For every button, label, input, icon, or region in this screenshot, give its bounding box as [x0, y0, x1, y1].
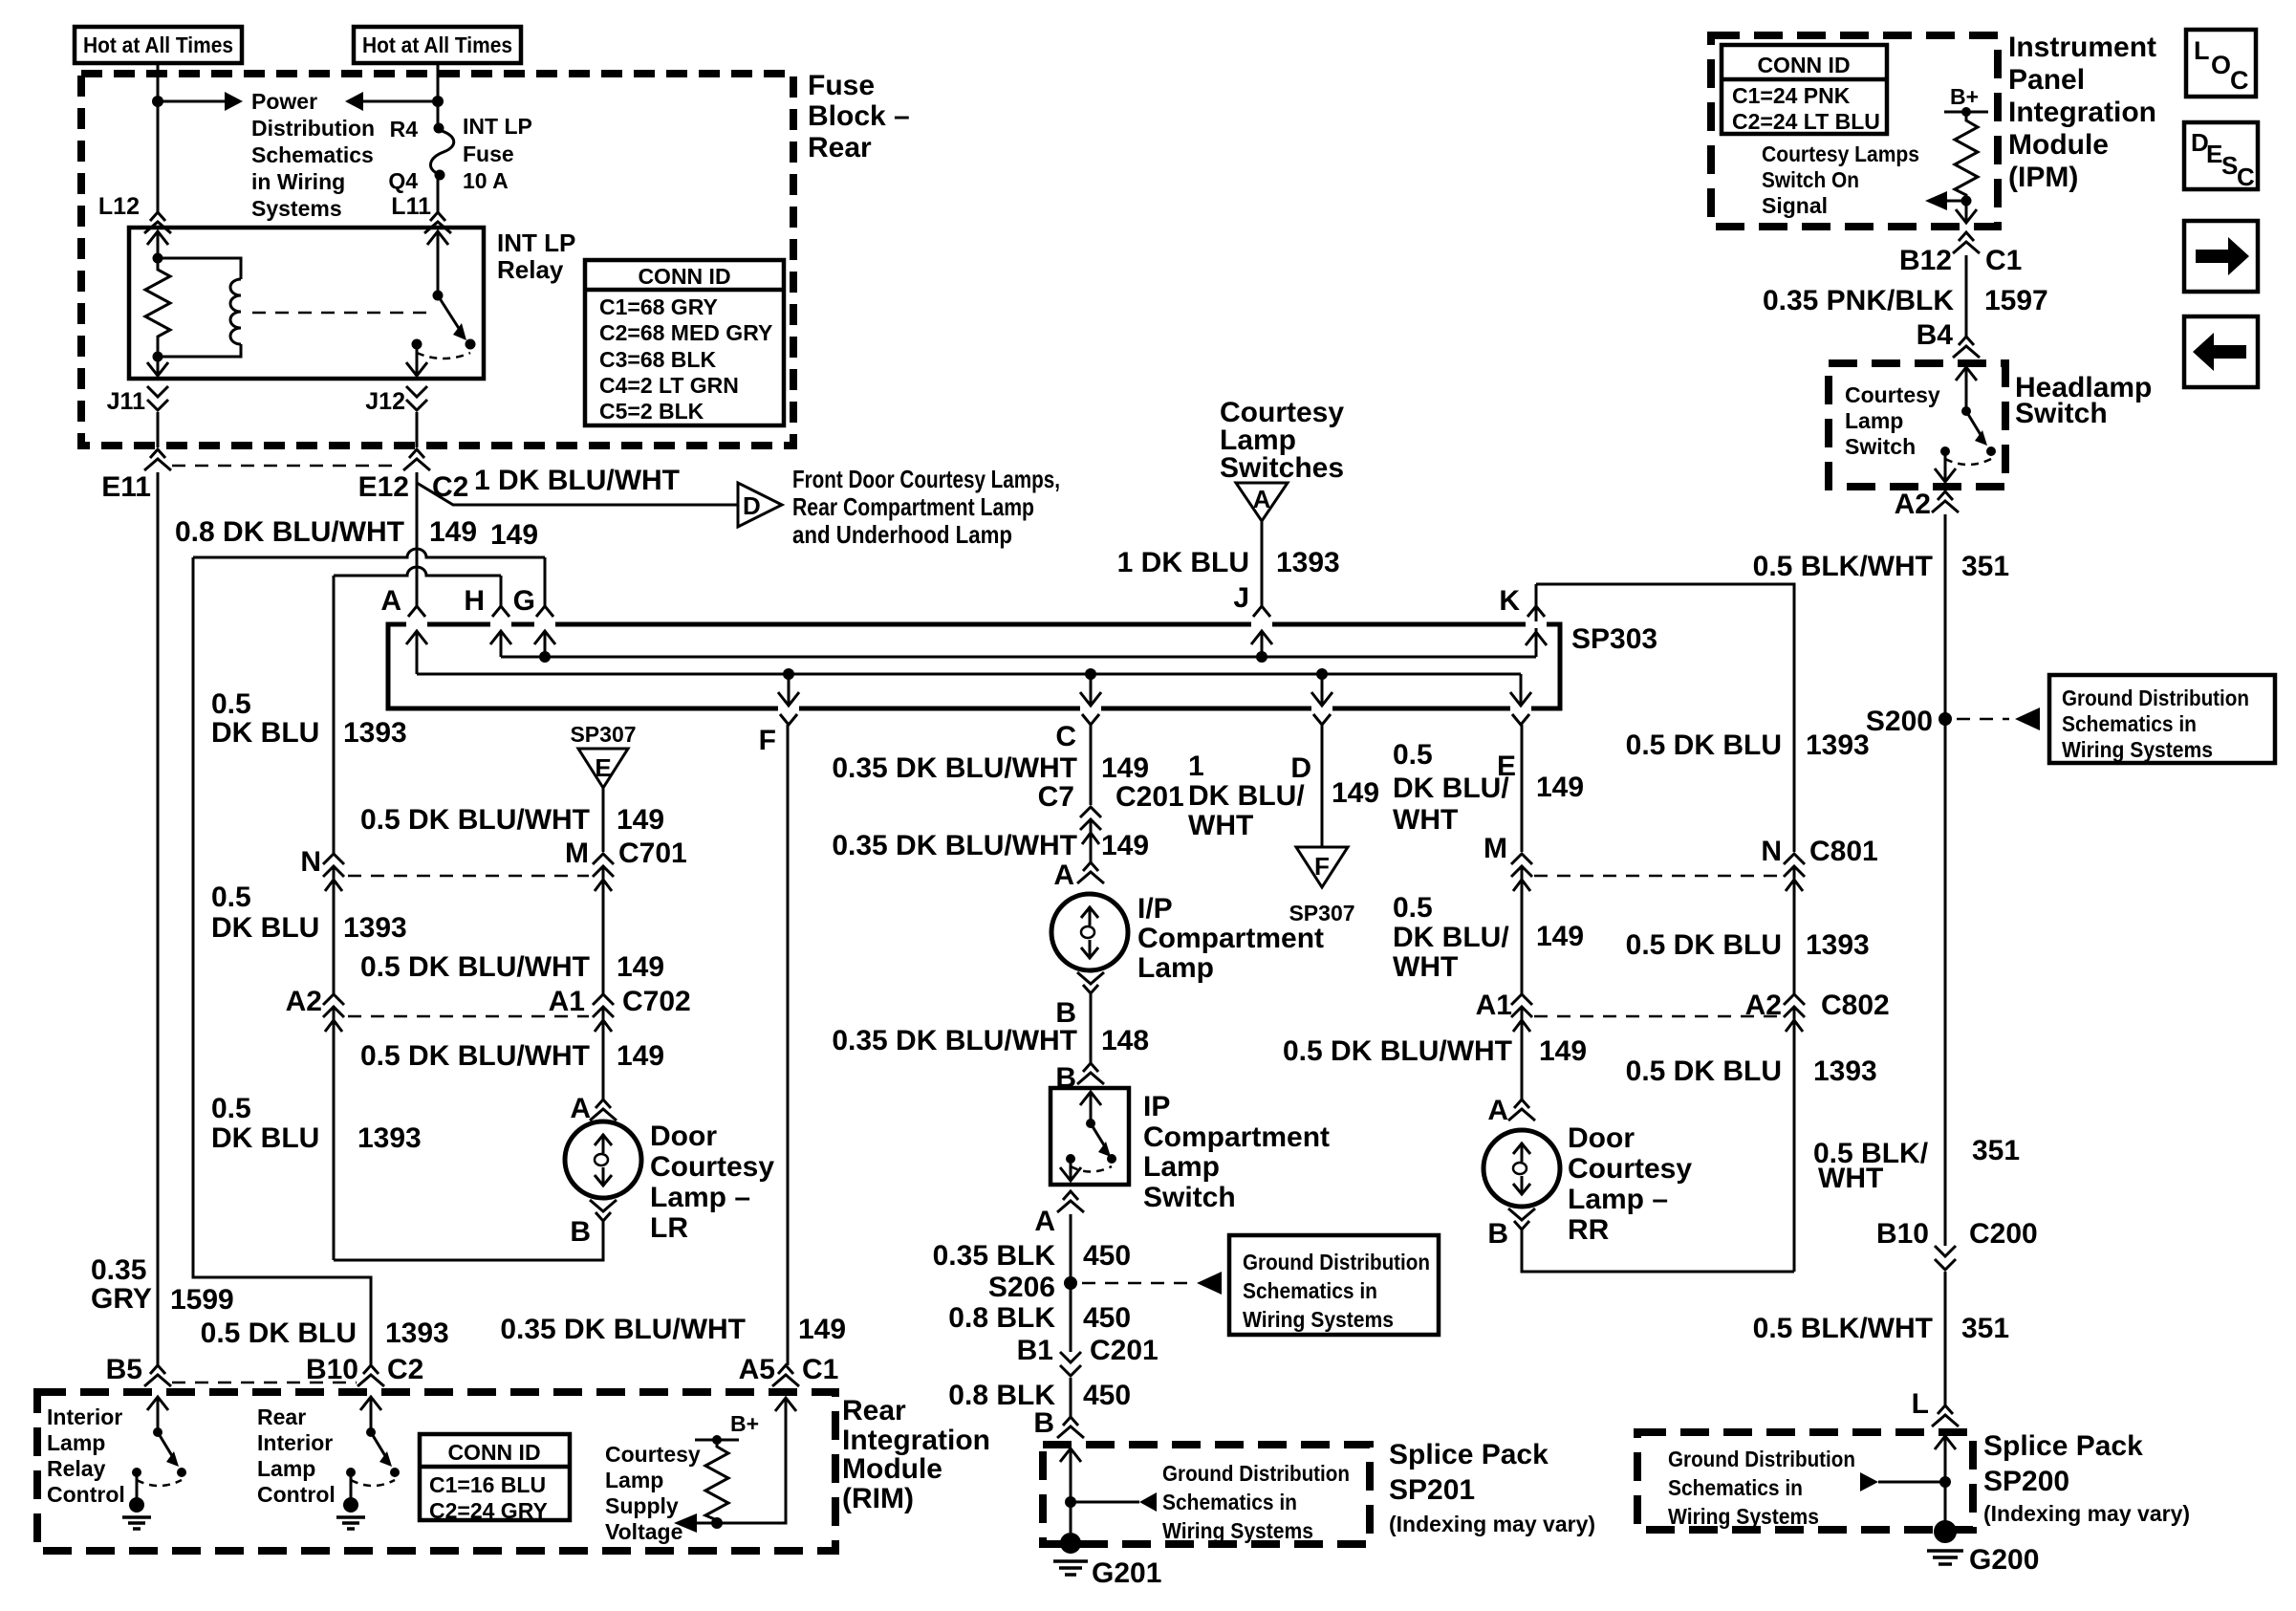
svg-text:B10: B10	[1876, 1218, 1929, 1250]
svg-text:Compartment: Compartment	[1137, 923, 1324, 954]
svg-text:Instrument: Instrument	[2008, 32, 2156, 63]
svg-text:Wiring Systems: Wiring Systems	[1162, 1518, 1313, 1543]
svg-text:D: D	[743, 491, 761, 520]
svg-text:149: 149	[1536, 772, 1584, 803]
svg-text:Front Door Courtesy Lamps,: Front Door Courtesy Lamps,	[792, 465, 1060, 493]
svg-text:M: M	[1484, 833, 1507, 864]
svg-text:0.5 DK BLU: 0.5 DK BLU	[201, 1317, 357, 1349]
svg-text:Courtesy: Courtesy	[605, 1442, 701, 1467]
svg-text:SP307: SP307	[1289, 901, 1354, 925]
svg-text:and Underhood Lamp: and Underhood Lamp	[792, 520, 1012, 549]
svg-text:Integration: Integration	[2008, 97, 2156, 128]
DESC box	[2184, 122, 2258, 189]
horizontal wire to G with hop	[193, 549, 545, 557]
svg-text:Door: Door	[1568, 1122, 1635, 1154]
svg-text:1393: 1393	[343, 717, 407, 749]
svg-text:0.5 DK BLU/WHT: 0.5 DK BLU/WHT	[1283, 1035, 1512, 1067]
svg-text:Relay: Relay	[47, 1456, 106, 1481]
Ground Distribution reference box (S206)	[1229, 1235, 1439, 1335]
Splice Pack SP201 dashed box	[1043, 1445, 1370, 1544]
svg-text:A1: A1	[1476, 990, 1512, 1021]
svg-text:C201: C201	[1090, 1335, 1159, 1366]
svg-text:J: J	[1233, 582, 1249, 614]
svg-text:C: C	[2230, 66, 2249, 95]
lamp LR circle	[565, 1121, 641, 1198]
dashed connector line C801	[1534, 875, 1778, 878]
svg-text:B+: B+	[1950, 84, 1979, 109]
svg-text:L: L	[1912, 1388, 1929, 1420]
svg-text:Ground Distribution: Ground Distribution	[1162, 1461, 1350, 1486]
arrow to Power Distribution text	[158, 100, 225, 103]
svg-text:WHT: WHT	[1393, 951, 1458, 983]
svg-text:G200: G200	[1969, 1544, 2039, 1576]
svg-text:Schematics in: Schematics in	[2062, 711, 2197, 736]
svg-text:Compartment: Compartment	[1143, 1121, 1330, 1153]
connector B12 / C1	[1953, 232, 1980, 253]
svg-text:Module: Module	[842, 1453, 942, 1485]
Hot at All Times box 2	[354, 27, 521, 63]
svg-text:C2=68 MED GRY: C2=68 MED GRY	[599, 320, 772, 345]
svg-text:450: 450	[1083, 1240, 1131, 1272]
white notches at bus edge terminal crossings	[406, 625, 1547, 708]
svg-text:149: 149	[490, 519, 538, 551]
left arrow (courtesy lamps switch on signal)	[1947, 200, 1966, 203]
svg-text:149: 149	[1101, 752, 1149, 784]
svg-text:Courtesy: Courtesy	[1568, 1153, 1692, 1185]
svg-text:0.5 DK BLU/WHT: 0.5 DK BLU/WHT	[360, 1040, 590, 1072]
svg-text:C2: C2	[387, 1354, 423, 1385]
svg-text:C3=68 BLK: C3=68 BLK	[599, 347, 716, 372]
terminal D leaving bus	[1316, 668, 1328, 680]
svg-text:L12: L12	[98, 193, 140, 220]
headlamp switch internals	[1956, 367, 1977, 381]
ground G200	[1934, 1520, 1957, 1543]
svg-text:SP200: SP200	[1983, 1466, 2069, 1497]
dashed connector line E11-E12	[172, 465, 401, 468]
svg-text:Switch: Switch	[1143, 1182, 1236, 1213]
svg-text:Distribution: Distribution	[251, 116, 375, 141]
svg-text:C201: C201	[1116, 781, 1184, 813]
svg-text:SP201: SP201	[1389, 1474, 1475, 1506]
svg-text:1393: 1393	[1813, 1056, 1877, 1087]
svg-text:0.35 DK BLU/WHT: 0.35 DK BLU/WHT	[832, 1025, 1077, 1056]
svg-text:C1: C1	[1985, 245, 2022, 276]
K wire from bus to N	[1536, 584, 1794, 852]
svg-text:B+: B+	[730, 1411, 759, 1436]
dashed connector line C802	[1534, 1015, 1778, 1018]
svg-text:Rear: Rear	[808, 132, 872, 163]
svg-text:0.35 DK BLU/WHT: 0.35 DK BLU/WHT	[832, 752, 1077, 784]
svg-text:0.5: 0.5	[211, 882, 251, 913]
svg-text:Courtesy Lamps: Courtesy Lamps	[1762, 142, 1919, 166]
wire from Hot box 1	[157, 63, 160, 212]
svg-text:LR: LR	[650, 1212, 688, 1244]
terminal F leaving bus	[783, 668, 794, 680]
svg-text:B12: B12	[1899, 245, 1952, 276]
svg-text:DK BLU: DK BLU	[211, 717, 319, 749]
svg-text:Lamp: Lamp	[1845, 408, 1903, 433]
Hot at All Times box 1	[75, 27, 242, 63]
svg-text:H: H	[464, 585, 485, 617]
svg-text:C801: C801	[1809, 836, 1878, 867]
svg-text:N: N	[300, 846, 321, 878]
svg-text:CONN ID: CONN ID	[638, 264, 730, 289]
svg-text:Control: Control	[47, 1482, 125, 1507]
svg-text:C1=68 GRY: C1=68 GRY	[599, 294, 718, 319]
svg-text:Schematics in: Schematics in	[1243, 1278, 1377, 1303]
svg-text:0.5: 0.5	[211, 688, 251, 720]
svg-text:E: E	[595, 753, 611, 782]
svg-text:1 DK BLU/WHT: 1 DK BLU/WHT	[474, 465, 680, 496]
svg-text:1 DK BLU: 1 DK BLU	[1117, 547, 1249, 578]
svg-text:F: F	[759, 725, 776, 756]
svg-text:(RIM): (RIM)	[842, 1483, 914, 1514]
svg-text:A: A	[1487, 1095, 1508, 1126]
svg-text:Hot at All Times: Hot at All Times	[83, 33, 233, 57]
svg-text:Q4: Q4	[388, 168, 418, 193]
svg-text:0.5 DK BLU: 0.5 DK BLU	[1626, 729, 1782, 761]
svg-text:SP303: SP303	[1571, 623, 1657, 655]
svg-text:B: B	[570, 1216, 591, 1248]
relay dashed actuator line	[252, 312, 426, 315]
branch wire to triangle D	[417, 483, 738, 505]
svg-text:A1: A1	[549, 986, 585, 1017]
ground G201	[1060, 1533, 1081, 1554]
svg-text:WHT: WHT	[1188, 810, 1253, 841]
svg-text:A: A	[380, 585, 401, 617]
svg-text:C702: C702	[622, 986, 691, 1017]
svg-text:149: 149	[1536, 921, 1584, 952]
svg-text:Lamp –: Lamp –	[1568, 1184, 1668, 1215]
svg-text:CONN ID: CONN ID	[1757, 53, 1850, 77]
svg-text:F: F	[1314, 852, 1330, 881]
wire F down to A5	[787, 725, 790, 1365]
svg-text:WHT: WHT	[1393, 804, 1458, 836]
svg-text:0.5: 0.5	[211, 1093, 251, 1124]
wire from Hot box 2	[437, 63, 440, 125]
junction dot	[152, 96, 163, 107]
terminal E leaving bus	[1520, 674, 1523, 704]
svg-text:0.5 DK BLU: 0.5 DK BLU	[1626, 929, 1782, 961]
dashed connector line C702	[348, 1015, 589, 1018]
svg-text:1393: 1393	[1276, 547, 1340, 578]
svg-text:Rear Compartment Lamp: Rear Compartment Lamp	[792, 492, 1034, 521]
IP switch internals	[1080, 1092, 1101, 1106]
svg-text:A5: A5	[739, 1354, 775, 1385]
svg-text:Lamp: Lamp	[605, 1468, 663, 1492]
triangle D connector	[738, 483, 782, 527]
svg-text:148: 148	[1101, 1025, 1149, 1056]
splice S200	[1939, 712, 1952, 726]
svg-text:1393: 1393	[1806, 729, 1870, 761]
svg-text:0.5 DK BLU/WHT: 0.5 DK BLU/WHT	[360, 804, 590, 836]
I/P Compartment Lamp	[1051, 894, 1128, 970]
svg-text:0.5: 0.5	[1393, 892, 1433, 924]
svg-text:149: 149	[429, 516, 477, 548]
Headlamp Switch dashed box	[1829, 363, 2005, 487]
svg-text:Switches: Switches	[1220, 452, 1344, 484]
svg-text:(IPM): (IPM)	[2008, 162, 2078, 193]
svg-text:Rear: Rear	[257, 1404, 306, 1429]
svg-text:Ground Distribution: Ground Distribution	[1668, 1447, 1855, 1471]
svg-text:S: S	[2221, 151, 2238, 180]
bus internal wire 1	[501, 656, 1536, 659]
svg-text:Signal: Signal	[1762, 193, 1828, 218]
svg-text:Ground Distribution: Ground Distribution	[2062, 686, 2249, 710]
left arrow box	[2184, 316, 2258, 387]
svg-text:10 A: 10 A	[463, 168, 509, 193]
Fuse Block - Rear dashed box	[81, 74, 793, 446]
svg-text:INT LP: INT LP	[463, 114, 532, 139]
svg-text:Fuse: Fuse	[808, 70, 875, 101]
svg-text:Block –: Block –	[808, 100, 910, 132]
svg-text:0.8 BLK: 0.8 BLK	[948, 1302, 1055, 1334]
svg-text:O: O	[2211, 51, 2231, 79]
left vertical from H-wire down to N	[333, 576, 336, 854]
svg-text:Fuse: Fuse	[463, 142, 514, 166]
wire E11 down to B5	[157, 472, 160, 1365]
svg-text:149: 149	[617, 1040, 664, 1072]
svg-text:B4: B4	[1917, 319, 1954, 351]
svg-text:Schematics in: Schematics in	[1668, 1475, 1803, 1500]
wire E12 down to A with hops	[416, 472, 419, 606]
CONN ID box (RIM)	[420, 1434, 570, 1520]
svg-text:C: C	[1055, 721, 1076, 752]
svg-text:J11: J11	[107, 388, 145, 415]
svg-text:Switch: Switch	[1845, 434, 1916, 459]
svg-text:Relay: Relay	[497, 255, 564, 284]
svg-text:L: L	[2194, 36, 2210, 65]
svg-text:0.5 DK BLU: 0.5 DK BLU	[1626, 1056, 1782, 1087]
svg-text:M: M	[565, 838, 589, 869]
svg-text:149: 149	[1332, 777, 1379, 809]
svg-text:149: 149	[617, 951, 664, 983]
svg-text:G: G	[513, 585, 535, 617]
svg-text:B5: B5	[106, 1354, 142, 1385]
svg-text:A2: A2	[286, 986, 322, 1017]
dashed connector line C2	[172, 1382, 357, 1384]
svg-text:C2=24 LT BLU: C2=24 LT BLU	[1732, 109, 1880, 134]
triangle F	[1296, 847, 1348, 887]
Ground Distribution reference box (S200)	[2049, 675, 2275, 763]
svg-text:CONN ID: CONN ID	[447, 1440, 540, 1465]
svg-text:B1: B1	[1017, 1335, 1053, 1366]
svg-text:149: 149	[617, 804, 664, 836]
svg-text:Systems: Systems	[251, 196, 342, 221]
svg-text:Wiring Systems: Wiring Systems	[2062, 737, 2213, 762]
svg-text:G201: G201	[1092, 1557, 1161, 1589]
svg-text:351: 351	[1961, 551, 2009, 582]
svg-text:E12: E12	[358, 471, 409, 503]
svg-text:Lamp –: Lamp –	[650, 1182, 750, 1213]
svg-text:1: 1	[1188, 751, 1204, 782]
svg-text:RR: RR	[1568, 1214, 1610, 1246]
svg-text:L11: L11	[391, 193, 431, 220]
svg-text:Rear: Rear	[842, 1395, 906, 1426]
svg-text:C: C	[2237, 163, 2255, 191]
svg-text:1393: 1393	[385, 1317, 449, 1349]
svg-text:351: 351	[1961, 1313, 2009, 1344]
svg-text:0.35 DK BLU/WHT: 0.35 DK BLU/WHT	[832, 830, 1077, 861]
svg-text:I/P: I/P	[1137, 893, 1173, 925]
relay switch	[427, 231, 448, 246]
Splice Pack SP200 dashed box	[1637, 1432, 1973, 1530]
svg-text:1393: 1393	[343, 912, 407, 944]
svg-text:GRY: GRY	[91, 1283, 152, 1315]
svg-text:Supply: Supply	[605, 1493, 679, 1518]
svg-text:Panel: Panel	[2008, 64, 2085, 96]
svg-text:S200: S200	[1866, 706, 1933, 737]
svg-text:Integration: Integration	[842, 1425, 990, 1456]
bus internal wire 2	[417, 673, 1521, 676]
svg-text:Door: Door	[650, 1121, 717, 1152]
svg-text:Courtesy: Courtesy	[650, 1151, 774, 1183]
svg-text:149: 149	[1101, 830, 1149, 861]
svg-text:149: 149	[798, 1314, 846, 1345]
svg-text:S206: S206	[988, 1272, 1055, 1303]
svg-text:IP: IP	[1143, 1091, 1170, 1122]
relay coil branch entry arrow	[147, 231, 168, 246]
svg-text:Interior: Interior	[47, 1404, 122, 1429]
dashed connector line C701	[348, 875, 589, 878]
svg-text:DK BLU: DK BLU	[211, 912, 319, 944]
svg-text:C4=2 LT GRN: C4=2 LT GRN	[599, 373, 739, 398]
svg-text:Interior: Interior	[257, 1430, 333, 1455]
svg-text:B: B	[1487, 1218, 1508, 1250]
svg-text:0.5 BLK/WHT: 0.5 BLK/WHT	[1753, 551, 1933, 582]
svg-text:R4: R4	[390, 117, 419, 142]
svg-text:(Indexing may vary): (Indexing may vary)	[1389, 1512, 1595, 1536]
svg-text:149: 149	[1539, 1035, 1587, 1067]
svg-text:N: N	[1761, 836, 1782, 867]
relay coil	[158, 258, 241, 279]
svg-text:1599: 1599	[170, 1284, 234, 1316]
svg-text:0.5 BLK/WHT: 0.5 BLK/WHT	[1753, 1313, 1933, 1344]
svg-text:Lamp: Lamp	[1137, 952, 1214, 984]
INT LP Relay box	[129, 228, 484, 379]
svg-text:A: A	[570, 1093, 591, 1124]
svg-text:0.35 DK BLU/WHT: 0.35 DK BLU/WHT	[500, 1314, 746, 1345]
svg-text:Module: Module	[2008, 129, 2109, 161]
svg-text:0.35 BLK: 0.35 BLK	[933, 1240, 1056, 1272]
svg-text:K: K	[1499, 585, 1520, 617]
svg-text:Schematics: Schematics	[251, 142, 374, 167]
svg-text:C802: C802	[1821, 990, 1890, 1021]
svg-text:Control: Control	[257, 1482, 336, 1507]
svg-text:DK BLU/: DK BLU/	[1393, 922, 1509, 953]
resistor IPM	[1955, 112, 1978, 201]
svg-text:J12: J12	[365, 388, 405, 415]
fuse INT LP 10A	[434, 123, 444, 134]
right arrow box	[2184, 221, 2258, 292]
svg-text:(Indexing may vary): (Indexing may vary)	[1983, 1501, 2190, 1526]
svg-text:Lamp: Lamp	[47, 1430, 105, 1455]
lamp RR circle	[1484, 1130, 1560, 1207]
svg-text:C2=24 GRY: C2=24 GRY	[429, 1498, 548, 1523]
svg-text:Wiring Systems: Wiring Systems	[1243, 1307, 1394, 1332]
svg-text:1597: 1597	[1984, 285, 2048, 316]
svg-text:Switch: Switch	[2015, 398, 2108, 429]
svg-text:0.8 DK BLU/WHT: 0.8 DK BLU/WHT	[175, 516, 404, 548]
svg-text:A: A	[1053, 860, 1074, 891]
svg-text:Wiring Systems: Wiring Systems	[1668, 1504, 1819, 1529]
svg-text:0.35: 0.35	[91, 1254, 146, 1286]
svg-text:450: 450	[1083, 1302, 1131, 1334]
svg-text:Ground Distribution: Ground Distribution	[1243, 1250, 1430, 1274]
CONN ID box (fuse block)	[585, 260, 784, 425]
arrow pointing left	[363, 100, 438, 103]
svg-text:E11: E11	[101, 471, 151, 503]
svg-text:C1=24 PNK: C1=24 PNK	[1732, 83, 1851, 108]
svg-text:C7: C7	[1038, 781, 1074, 813]
LOC box	[2186, 30, 2256, 97]
left vertical from G-wire down to B10 elbow	[193, 557, 371, 1365]
svg-text:in Wiring: in Wiring	[251, 169, 345, 194]
svg-text:Splice Pack: Splice Pack	[1983, 1430, 2143, 1462]
svg-text:Splice Pack: Splice Pack	[1389, 1439, 1549, 1470]
svg-text:DK BLU/: DK BLU/	[1393, 773, 1509, 804]
svg-text:A2: A2	[1895, 489, 1931, 520]
svg-text:351: 351	[1972, 1135, 2020, 1166]
svg-text:DK BLU/: DK BLU/	[1188, 780, 1305, 812]
svg-text:C200: C200	[1969, 1218, 2038, 1250]
svg-text:0.5: 0.5	[1393, 739, 1433, 771]
svg-text:Lamp: Lamp	[257, 1456, 315, 1481]
svg-text:E: E	[2206, 140, 2222, 168]
svg-text:Lamp: Lamp	[1143, 1151, 1220, 1183]
svg-text:450: 450	[1083, 1380, 1131, 1411]
svg-text:0.5 DK BLU/WHT: 0.5 DK BLU/WHT	[360, 951, 590, 983]
svg-text:Schematics in: Schematics in	[1162, 1490, 1297, 1514]
svg-text:Hot at All Times: Hot at All Times	[362, 33, 512, 57]
CONN ID box (IPM)	[1722, 45, 1887, 134]
horizontal wire to H with hop	[334, 567, 501, 576]
svg-text:A: A	[1253, 485, 1271, 513]
splice S206	[1064, 1276, 1077, 1290]
svg-text:INT LP: INT LP	[497, 229, 575, 257]
svg-text:1393: 1393	[1806, 929, 1870, 961]
svg-text:0.35 PNK/BLK: 0.35 PNK/BLK	[1763, 285, 1954, 316]
svg-text:C1: C1	[802, 1354, 838, 1385]
svg-text:WHT: WHT	[1818, 1163, 1883, 1194]
svg-text:B: B	[1033, 1407, 1054, 1439]
svg-text:A2: A2	[1745, 990, 1782, 1021]
svg-text:C701: C701	[618, 838, 687, 869]
svg-text:B10: B10	[306, 1354, 358, 1385]
svg-text:Switch On: Switch On	[1762, 167, 1859, 192]
svg-text:C2: C2	[432, 471, 468, 503]
svg-text:DK BLU: DK BLU	[211, 1122, 319, 1154]
svg-text:A: A	[1034, 1206, 1055, 1237]
terminal C leaving bus	[1085, 668, 1096, 680]
relay resistor	[145, 258, 170, 357]
svg-text:Power: Power	[251, 89, 317, 114]
svg-text:C5=2 BLK: C5=2 BLK	[599, 399, 704, 424]
IP Compartment Lamp Switch box	[1051, 1088, 1129, 1185]
svg-text:1393: 1393	[357, 1122, 422, 1154]
svg-text:Voltage: Voltage	[605, 1519, 682, 1544]
svg-text:Courtesy: Courtesy	[1845, 382, 1940, 407]
svg-text:SP307: SP307	[570, 722, 636, 747]
svg-text:C1=16 BLU: C1=16 BLU	[429, 1472, 546, 1497]
